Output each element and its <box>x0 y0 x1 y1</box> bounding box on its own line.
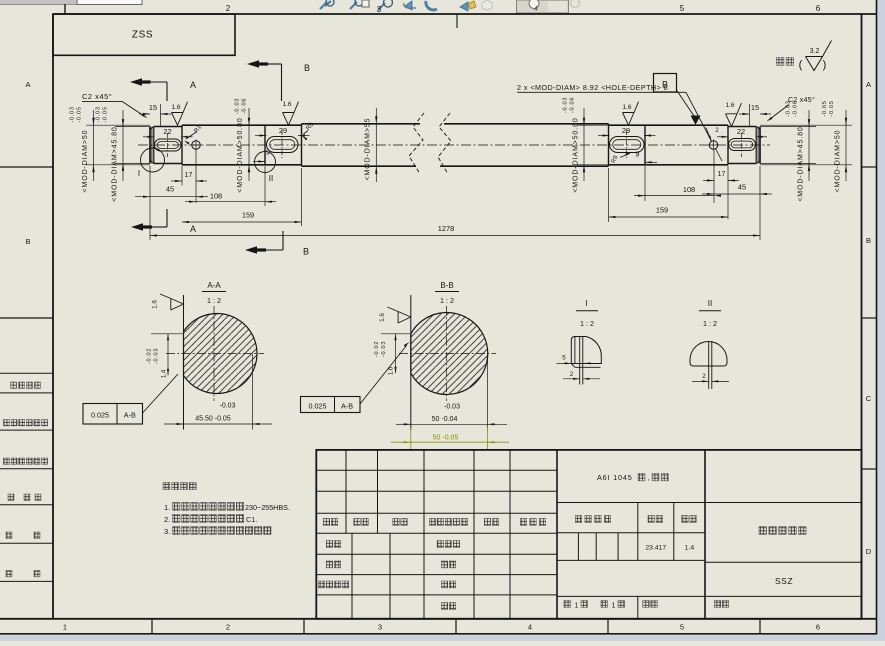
diameter dim MOD-DIAM 50 left <box>86 124 150 126</box>
svg-text:4: 4 <box>528 623 532 632</box>
svg-text:-0.02: -0.02 <box>374 341 380 357</box>
svg-text:C1.: C1. <box>246 515 257 524</box>
svg-text:1 : 2: 1 : 2 <box>703 319 717 328</box>
datum box B <box>654 74 677 93</box>
viewport area right of sheet <box>877 0 885 641</box>
svg-text:B: B <box>25 237 30 246</box>
left margin label date <box>6 571 12 577</box>
revision table rows <box>316 469 557 471</box>
section arrow A top <box>130 78 142 85</box>
svg-text:-0.03: -0.03 <box>563 97 569 113</box>
shaft bottom outline <box>154 163 182 165</box>
shaft right end face <box>759 127 761 164</box>
keyway II left oval <box>267 137 299 153</box>
hole left <box>192 141 200 149</box>
svg-text:B: B <box>866 236 871 245</box>
detail circle I <box>141 148 165 172</box>
title block label biaozhunhua <box>437 541 444 548</box>
svg-text:45.50 -0.05: 45.50 -0.05 <box>195 416 231 423</box>
svg-text:A6I 1045: A6I 1045 <box>597 473 633 482</box>
svg-text:(: ( <box>799 59 803 71</box>
section arrow B top <box>247 60 259 67</box>
detail circle II <box>255 152 276 173</box>
title block vertical 557 main divider <box>556 450 558 619</box>
shaft left end face <box>149 127 151 164</box>
svg-text:3.: 3. <box>164 527 170 536</box>
keyway centermark right II <box>626 130 628 158</box>
part name cell bottom line <box>705 561 862 563</box>
surface mark 1.6 left keyway <box>172 102 188 126</box>
svg-text:1.6: 1.6 <box>622 104 631 111</box>
title block label shenhe <box>441 581 448 588</box>
title block header biaoji <box>323 519 330 526</box>
svg-text:B-B: B-B <box>440 281 453 290</box>
svg-text:-0.06: -0.06 <box>241 98 247 114</box>
svg-text:9: 9 <box>266 150 270 157</box>
svg-text:I: I <box>138 169 140 178</box>
svg-text:D: D <box>866 547 872 556</box>
section B-B surface mark <box>379 307 411 323</box>
toolbar icon magnifier 1 <box>320 1 331 9</box>
dim 45 left <box>149 166 151 240</box>
svg-text:3: 3 <box>378 623 382 632</box>
mass header zhiliang <box>648 516 655 523</box>
dim 159 right <box>608 168 610 222</box>
svg-text:A-B: A-B <box>341 402 353 411</box>
section B-B centerlines <box>399 353 496 355</box>
diameter dim MOD-DIAM 50.80 left <box>248 108 250 181</box>
shaft step at x728 <box>727 125 729 165</box>
section arrow A bottom <box>166 209 168 227</box>
upside-down title box ZSS <box>53 14 235 55</box>
svg-text:A-A: A-A <box>207 281 221 290</box>
svg-text:17: 17 <box>718 171 726 178</box>
dim 108 right <box>644 166 646 201</box>
toolbar white dropdown fragment <box>77 0 142 5</box>
shaft right chamfer edges <box>756 127 760 130</box>
svg-text:2: 2 <box>570 371 574 378</box>
svg-text:-0.05: -0.05 <box>103 106 109 122</box>
shaft centerline <box>138 144 770 146</box>
svg-text:2.: 2. <box>164 515 170 524</box>
keyway centermark left I <box>167 133 169 157</box>
svg-text:108: 108 <box>210 192 222 201</box>
diameter dim MOD-DIAM 50.80 right <box>577 124 609 126</box>
svg-text:1.6: 1.6 <box>282 101 291 108</box>
svg-text:6: 6 <box>816 4 821 13</box>
dim 17 left <box>181 166 183 186</box>
dim 159 left <box>301 168 303 226</box>
svg-text:1.6: 1.6 <box>152 300 159 309</box>
title block header chushu <box>354 519 361 526</box>
revision table columns <box>345 450 347 533</box>
svg-text:<MOD-DIAM>50: <MOD-DIAM>50 <box>82 130 89 193</box>
section A-A width dim 45.50 <box>252 354 254 430</box>
svg-text:1.: 1. <box>164 503 170 512</box>
svg-text:3: 3 <box>377 5 382 14</box>
replaces tidai <box>714 601 721 608</box>
drawing frame top border <box>53 13 877 15</box>
svg-text:17: 17 <box>185 172 193 179</box>
svg-text:-0.05: -0.05 <box>829 100 835 116</box>
toolbar icon undo arrow <box>404 3 416 8</box>
svg-text:0.025: 0.025 <box>91 411 109 420</box>
svg-text:-0.06: -0.06 <box>570 97 576 113</box>
svg-text:159: 159 <box>242 211 254 220</box>
title block header qianming <box>484 519 491 526</box>
svg-text:,: , <box>648 475 650 482</box>
stage mark cells <box>577 533 579 561</box>
drawing frame left border <box>52 14 54 619</box>
drawing frame bottom border <box>0 618 877 620</box>
top margin zone tick <box>64 4 66 14</box>
svg-text:3.2: 3.2 <box>810 48 820 55</box>
title block header genggai-wenjianhao <box>429 519 436 526</box>
left margin label usage-record <box>4 420 10 426</box>
dim 17 right <box>713 151 715 204</box>
svg-text:5: 5 <box>680 4 685 13</box>
shaft step at x608 <box>608 124 610 166</box>
break line left <box>409 113 424 174</box>
keyway II right oval <box>610 137 645 153</box>
datum feature frame 0.025 A-B right <box>301 397 361 413</box>
svg-text:B: B <box>303 247 309 257</box>
svg-text:A: A <box>25 80 30 89</box>
svg-text:5: 5 <box>680 623 684 632</box>
sheet count gong-1-zhang <box>564 601 571 608</box>
left margin label drawing-no <box>8 494 14 500</box>
svg-text:2 x <MOD-DIAM> 8.92 <HOLE-DEPT: 2 x <MOD-DIAM> 8.92 <HOLE-DEPTH> 8 <box>517 83 668 92</box>
svg-text:-0.03: -0.03 <box>234 98 240 114</box>
sheet bottom edge <box>0 633 877 635</box>
signature area columns <box>351 533 353 619</box>
svg-text:23.417: 23.417 <box>645 545 666 552</box>
keyway centermark left II <box>281 130 283 158</box>
signature area rows <box>316 553 557 555</box>
svg-text:-0.03: -0.03 <box>381 341 387 357</box>
svg-text:A: A <box>190 224 196 234</box>
section A-A circle <box>184 314 257 394</box>
toolbar pressed button <box>517 0 569 13</box>
svg-text:<MOD-DIAM>55: <MOD-DIAM>55 <box>365 118 372 181</box>
svg-text:<MOD-DIAM>45.80: <MOD-DIAM>45.80 <box>112 126 119 201</box>
diameter dim MOD-DIAM 55 middle <box>375 108 377 182</box>
title block header nianyueri <box>520 519 527 526</box>
svg-text:B: B <box>304 63 310 73</box>
svg-text:2: 2 <box>226 4 231 13</box>
svg-text:-0.05: -0.05 <box>822 100 828 116</box>
svg-text:1278: 1278 <box>438 224 454 233</box>
bottom row line <box>557 595 862 597</box>
svg-text:1 : 2: 1 : 2 <box>580 319 594 328</box>
break line right <box>438 113 451 174</box>
right margin zone dividers <box>862 166 877 168</box>
surface mark 1.6 right keyseat <box>623 102 639 126</box>
svg-text:1.6: 1.6 <box>725 102 734 109</box>
section A-A centerlines <box>166 353 264 355</box>
svg-text:): ) <box>823 59 827 71</box>
svg-text:4: 4 <box>534 6 538 13</box>
svg-text:-0.03: -0.03 <box>70 106 76 122</box>
svg-text:-0.03: -0.03 <box>96 106 102 122</box>
svg-text:-0.06: -0.06 <box>793 100 799 116</box>
svg-text:A: A <box>866 80 871 89</box>
svg-text:1 : 2: 1 : 2 <box>207 296 221 305</box>
svg-text:<MOD-DIAM>50: <MOD-DIAM>50 <box>834 130 841 193</box>
svg-text:-0.03: -0.03 <box>154 348 160 364</box>
toolbar icon cube <box>482 0 492 10</box>
section B-B flat line <box>410 295 412 430</box>
left margin label part-code <box>11 382 17 388</box>
title block label pizhun <box>441 603 448 610</box>
svg-text:22: 22 <box>163 127 171 136</box>
hole right <box>709 141 717 149</box>
section A-A surface mark <box>152 294 184 310</box>
stage mark row lines <box>557 532 705 534</box>
svg-text:<MOD-DIAM>50.80: <MOD-DIAM>50.80 <box>572 117 579 192</box>
shaft step at x301 <box>301 124 303 166</box>
svg-text:9: 9 <box>636 152 640 159</box>
svg-text:-0.03: -0.03 <box>220 403 236 410</box>
stage mark header <box>575 516 582 523</box>
datum feature frame 0.025 A-B left <box>83 404 143 425</box>
detail II keyway profile <box>690 342 727 367</box>
title block label gongyi <box>441 561 448 568</box>
svg-text:I: I <box>585 299 587 308</box>
section arrow B bottom <box>282 231 284 250</box>
keyway I left oval <box>155 139 182 151</box>
svg-text:C: C <box>866 394 872 403</box>
svg-text:0.025: 0.025 <box>309 402 327 411</box>
part name shusong-zhudongzhou <box>759 527 767 535</box>
keyway I right oval <box>729 139 756 151</box>
diameter dim MOD-DIAM 45.80 left <box>115 126 150 128</box>
surface mark 1.6 left keyseat <box>283 102 299 126</box>
dim 108 left <box>264 166 266 206</box>
svg-text:15: 15 <box>751 103 759 112</box>
svg-text:22: 22 <box>737 127 745 136</box>
svg-text:1: 1 <box>612 603 616 610</box>
selected dim 50 -0.05 olive <box>410 427 412 450</box>
svg-text:II: II <box>269 174 273 183</box>
svg-text:ZSS: ZSS <box>132 30 153 41</box>
version banben <box>643 601 650 608</box>
svg-text:1: 1 <box>575 603 579 610</box>
left margin zone dividers <box>0 166 53 168</box>
bottom zone row dividers <box>151 619 153 634</box>
datum triangle B <box>691 116 701 125</box>
svg-text:29: 29 <box>622 126 630 135</box>
svg-text:1.6: 1.6 <box>171 104 180 111</box>
shaft step at x182 <box>181 125 183 165</box>
svg-text:1.4: 1.4 <box>685 545 695 552</box>
title block outline <box>316 450 861 619</box>
svg-text:29: 29 <box>279 126 287 135</box>
svg-text:A: A <box>190 80 196 90</box>
detail I keyway profile <box>571 337 601 364</box>
keyway centermark right I <box>741 133 743 157</box>
svg-text:15: 15 <box>149 103 157 112</box>
svg-text:6: 6 <box>816 623 820 632</box>
toolbar icon magnifier 2 <box>350 2 357 9</box>
toolbar fragment gray <box>0 0 77 5</box>
svg-text:1 : 2: 1 : 2 <box>440 296 454 305</box>
svg-text:<MOD-DIAM>50.80: <MOD-DIAM>50.80 <box>237 117 244 192</box>
svg-text:230~255HBS.: 230~255HBS. <box>245 503 290 512</box>
section B-B width dim 50 <box>487 354 489 430</box>
svg-text:II: II <box>708 299 712 308</box>
general roughness note qi-yu <box>776 58 784 66</box>
svg-text:-0.03: -0.03 <box>786 100 792 116</box>
svg-text:A-B: A-B <box>124 411 136 420</box>
svg-text:5: 5 <box>562 355 566 362</box>
svg-text:1: 1 <box>63 623 67 632</box>
sheet right edge <box>876 0 878 635</box>
dim 45 right <box>759 166 761 240</box>
svg-text:45: 45 <box>166 185 174 194</box>
diameter dim MOD-DIAM 50 right <box>760 124 852 126</box>
svg-text:108: 108 <box>683 185 695 194</box>
scale header bili <box>682 516 689 523</box>
svg-text:45: 45 <box>738 183 746 192</box>
shaft left chamfer edges <box>150 127 154 130</box>
svg-text:SSZ: SSZ <box>775 576 793 586</box>
section B-B circle <box>411 312 488 394</box>
diameter dim MOD-DIAM 45.80 right <box>760 126 816 128</box>
centering mark below top frame <box>456 15 458 29</box>
material cell bottom line <box>557 502 862 504</box>
svg-text:C2 x45°: C2 x45° <box>82 92 112 101</box>
viewport area below sheet <box>0 635 885 641</box>
title block label sheji <box>326 541 333 548</box>
title block header fenqu <box>393 519 400 526</box>
left margin record boxes <box>0 372 53 374</box>
svg-text:2: 2 <box>226 623 230 632</box>
svg-text:50 -0.04: 50 -0.04 <box>432 416 458 423</box>
toolbar icon rotate crescent <box>426 1 437 10</box>
shaft top outline <box>154 126 182 128</box>
section A-A flat line <box>183 295 185 430</box>
shaft step at x265 <box>264 125 266 165</box>
technical requirements heading <box>163 483 170 490</box>
drawing frame right inner border <box>861 14 863 619</box>
title block label jiaohe <box>326 561 333 568</box>
svg-text:159: 159 <box>656 206 668 215</box>
svg-text:-0.03: -0.03 <box>444 404 460 411</box>
svg-text:1.4: 1.4 <box>162 369 168 378</box>
left margin label signature <box>6 532 12 538</box>
title block label zhuguansheji <box>318 581 325 588</box>
surface mark 1.6 right keyway <box>726 103 742 127</box>
svg-text:1.6: 1.6 <box>379 313 386 322</box>
left margin label base-drawing-no <box>4 458 10 464</box>
svg-text:-0.05: -0.05 <box>77 106 83 122</box>
toolbar icon magnifier 3 <box>378 3 385 10</box>
svg-text:<MOD-DIAM>45.80: <MOD-DIAM>45.80 <box>797 126 804 201</box>
svg-text:50 -0.05: 50 -0.05 <box>433 435 459 442</box>
toolbar faint icon <box>571 0 580 8</box>
svg-text:2: 2 <box>702 373 706 380</box>
title block vertical 705 <box>704 450 706 619</box>
toolbar icon arrow with star <box>460 2 468 11</box>
shaft step at x645 <box>644 125 646 165</box>
svg-text:-0.02: -0.02 <box>147 348 153 364</box>
svg-text:B: B <box>662 80 668 90</box>
